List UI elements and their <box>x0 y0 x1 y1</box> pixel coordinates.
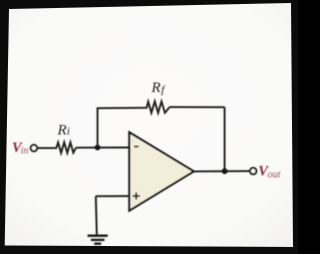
svg-text:R: R <box>151 80 161 96</box>
wire: Rf to feedback right corner <box>170 106 225 108</box>
wire: node A to inverting input of op-amp <box>98 147 130 149</box>
wire: ground branch down <box>96 196 97 235</box>
ground <box>88 236 108 244</box>
node B junction dot <box>222 168 228 174</box>
wire: non-inverting input to ground branch <box>96 195 130 197</box>
svg-text:i: i <box>67 126 70 138</box>
op-amp U1 triangle <box>129 132 194 210</box>
wire: Ri to node A <box>76 147 98 149</box>
output terminal Vout circle <box>250 168 256 174</box>
resistor Ri <box>55 142 76 153</box>
svg-text:R: R <box>57 122 67 138</box>
op-amp non-inverting input plus sign <box>133 192 140 199</box>
wire: feedback top, left lead to Rf <box>97 107 146 109</box>
wire: input terminal to Ri <box>37 147 55 149</box>
op-amp inverting input minus sign <box>134 146 139 148</box>
node A junction dot <box>95 145 101 151</box>
resistor Rf <box>145 101 169 113</box>
svg-text:in: in <box>21 145 29 156</box>
svg-text:out: out <box>268 170 281 181</box>
input terminal Vin circle <box>31 145 37 151</box>
wire: node A up to feedback branch <box>97 108 99 148</box>
wire: feedback down to node B <box>224 107 226 171</box>
wire: op-amp output to node B <box>194 170 250 172</box>
